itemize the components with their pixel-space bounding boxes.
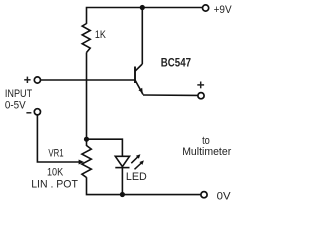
terminal: input + open circle — [34, 77, 40, 83]
wire: resistor R1 bottom down to pot junction (crosses base wire) — [86, 53, 88, 140]
label +9V — [214, 4, 233, 16]
wire: LED branch from junction right then down to LED anode — [87, 139, 123, 156]
resistor R1 zigzag — [82, 24, 90, 53]
terminal: output + open circle — [198, 93, 204, 99]
svg-text:VR1: VR1 — [48, 147, 63, 159]
transistor Q1 collector vertical wire — [141, 8, 143, 65]
transistor Q1 emitter arrowhead — [138, 88, 142, 93]
svg-text:BC547: BC547 — [161, 57, 191, 69]
svg-text:Multimeter: Multimeter — [182, 146, 231, 158]
potentiometer VR1 wiper arrowhead — [79, 160, 84, 165]
label 1K (value of R1) — [95, 29, 107, 41]
wire: from - terminal down then right to pot wiper — [37, 115, 79, 162]
node: junction dot resistor bottom / pot top / LED branch — [84, 137, 89, 142]
LED D1 triangle (anode) — [115, 156, 129, 166]
LED light arrow 2 — [135, 160, 144, 169]
wire: pot bottom down then right along bottom rail — [87, 177, 201, 194]
svg-text:0V: 0V — [217, 190, 232, 202]
label - (input minus sign) — [26, 112, 31, 114]
label + (input plus sign) — [24, 77, 30, 83]
terminal: 0V open circle — [201, 192, 207, 198]
label 10K (value of VR1) — [47, 167, 64, 179]
transistor Q1 emitter diagonal — [135, 80, 143, 95]
label BC547 (transistor type) — [161, 57, 191, 69]
svg-text:1K: 1K — [95, 29, 107, 41]
wire: LED cathode down to bottom rail — [121, 168, 123, 195]
transistor Q1 collector diagonal — [135, 64, 142, 71]
svg-text:LED: LED — [126, 171, 147, 183]
wire: emitter to + output terminal — [143, 94, 198, 96]
label INPUT — [5, 88, 33, 100]
node: junction dot collector to top rail — [140, 5, 145, 10]
label to Multimeter — [182, 135, 231, 158]
transistor Q1 base bar — [134, 67, 136, 84]
label 0V — [217, 190, 232, 202]
LED light arrow 1 — [131, 154, 140, 163]
wire: base wire from + input terminal to transistor base — [41, 79, 136, 81]
svg-text:+9V: +9V — [214, 4, 233, 16]
label VR1 — [48, 147, 63, 159]
terminal: input - open circle — [34, 109, 40, 115]
node: junction dot LED to bottom rail — [120, 192, 125, 197]
svg-text:INPUT: INPUT — [5, 88, 33, 100]
label LIN . POT — [31, 179, 78, 191]
potentiometer VR1 zigzag — [82, 146, 91, 178]
wire: junction down to pot top — [86, 139, 88, 146]
svg-text:10K: 10K — [47, 167, 64, 179]
svg-text:LIN . POT: LIN . POT — [31, 179, 78, 191]
svg-text:0-5V: 0-5V — [5, 99, 26, 111]
label 0-5V — [5, 99, 26, 111]
terminal: +9V open circle — [203, 5, 209, 11]
label LED — [126, 171, 147, 183]
wire: top rail from resistor top to +9V terminal — [87, 8, 203, 24]
LED D1 cathode bar — [115, 167, 129, 169]
label + (output plus sign) — [197, 82, 204, 89]
